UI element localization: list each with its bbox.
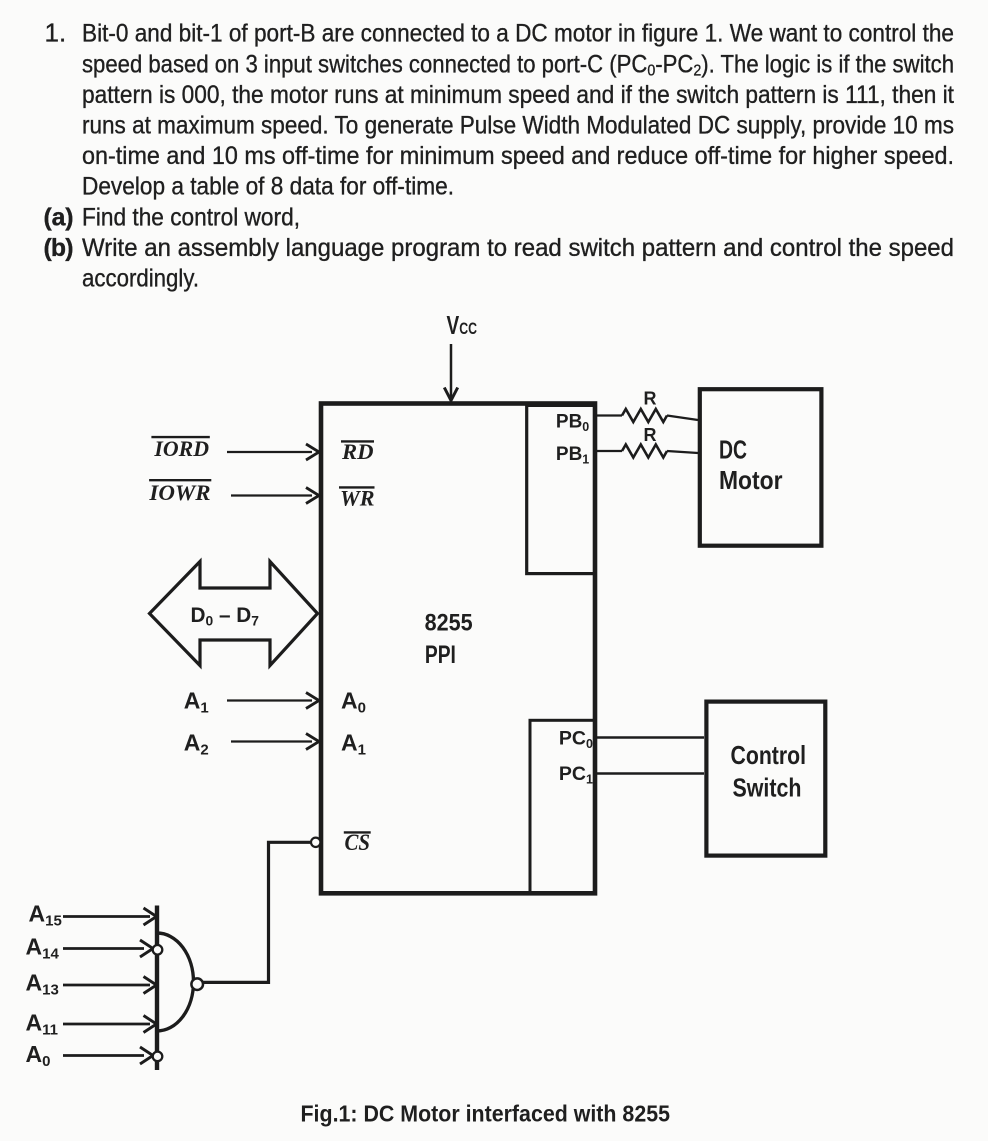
wire PC0 to control switch xyxy=(596,736,704,739)
A14 inverter bubble xyxy=(153,945,163,955)
svg-text:(b): (b) xyxy=(44,235,74,262)
svg-text:1.: 1. xyxy=(45,18,67,48)
svg-text:R: R xyxy=(644,389,657,409)
svg-text:Bit-0 and bit-1 of port-B are: Bit-0 and bit-1 of port-B are connected … xyxy=(82,21,954,48)
svg-text:PPI: PPI xyxy=(425,641,456,669)
wire A11 arrow xyxy=(63,1016,157,1033)
pin label WR (active low) xyxy=(339,486,375,511)
resistor R2 xyxy=(622,445,667,458)
svg-text:runs at maximum speed. To gene: runs at maximum speed. To generate Pulse… xyxy=(82,113,954,140)
A0 inverter bubble xyxy=(153,1052,163,1062)
pin label RD (active low) xyxy=(341,439,374,464)
wire A15 arrow xyxy=(63,908,157,925)
svg-text:Find the control word,: Find the control word, xyxy=(82,204,300,231)
wire Vcc to 8255 xyxy=(450,344,453,398)
wire A14 arrow xyxy=(63,940,153,957)
resistor R2 wire from PB1 xyxy=(595,450,622,452)
wire NAND output to CS xyxy=(199,842,311,982)
svg-text:accordingly.: accordingly. xyxy=(82,266,199,293)
NAND gate U2 output bubble xyxy=(191,978,203,990)
pin label CS (active low) xyxy=(344,830,371,855)
svg-text:IORD: IORD xyxy=(153,436,209,461)
net label IORD xyxy=(151,436,209,461)
NAND gate U2 input bar xyxy=(155,906,159,1071)
resistor R1 xyxy=(622,409,667,422)
NAND gate U2 body arc xyxy=(157,933,194,1031)
svg-text:Control: Control xyxy=(731,740,807,770)
svg-text:DC: DC xyxy=(719,435,747,465)
svg-text:Motor: Motor xyxy=(719,465,783,495)
IC U1 8255 PPI box xyxy=(321,404,595,894)
svg-text:pattern is 000, the motor runs: pattern is 000, the motor runs at minimu… xyxy=(82,82,954,109)
DC motor box M1 xyxy=(700,389,822,546)
svg-text:Fig.1: DC Motor interfaced wit: Fig.1: DC Motor interfaced with 8255 xyxy=(301,1101,671,1127)
svg-text:CS: CS xyxy=(345,830,371,855)
problem text paragraph xyxy=(44,18,955,293)
CS input bubble on 8255 xyxy=(311,838,320,847)
wire A0 arrow xyxy=(63,1047,153,1064)
svg-text:(a): (a) xyxy=(44,204,74,231)
svg-text:RD: RD xyxy=(341,439,374,464)
wire IOWR arrow xyxy=(231,488,319,504)
svg-text:R: R xyxy=(644,425,657,445)
svg-text:D0 – D7: D0 – D7 xyxy=(191,604,260,629)
resistor R1 wire from PB0 xyxy=(595,414,622,416)
control switch box SW1 xyxy=(706,702,825,856)
wire PC1 to control switch xyxy=(596,772,704,775)
wire R1 to motor xyxy=(667,416,698,421)
svg-text:Develop a table of 8 data for: Develop a table of 8 data for off-time. xyxy=(82,174,454,201)
data bus D0-D7 double arrow xyxy=(150,562,318,666)
net label IOWR xyxy=(148,480,211,505)
wire A1 arrow xyxy=(227,693,319,709)
svg-text:WR: WR xyxy=(340,486,375,511)
wire IORD arrow xyxy=(227,444,319,460)
svg-text:Write an assembly language pro: Write an assembly language program to re… xyxy=(82,235,954,262)
svg-text:IOWR: IOWR xyxy=(148,480,210,505)
svg-text:Switch: Switch xyxy=(733,773,802,803)
port-C section box xyxy=(530,720,595,893)
svg-text:speed based on 3 input switche: speed based on 3 input switches connecte… xyxy=(82,51,954,79)
wire A2 arrow xyxy=(231,734,319,750)
port-B section box xyxy=(527,405,595,573)
wire A13 arrow xyxy=(63,977,157,994)
svg-text:8255: 8255 xyxy=(425,610,473,637)
wire R2 to motor xyxy=(667,451,698,453)
svg-text:on-time and 10 ms off-time for: on-time and 10 ms off-time for minimum s… xyxy=(82,143,954,170)
